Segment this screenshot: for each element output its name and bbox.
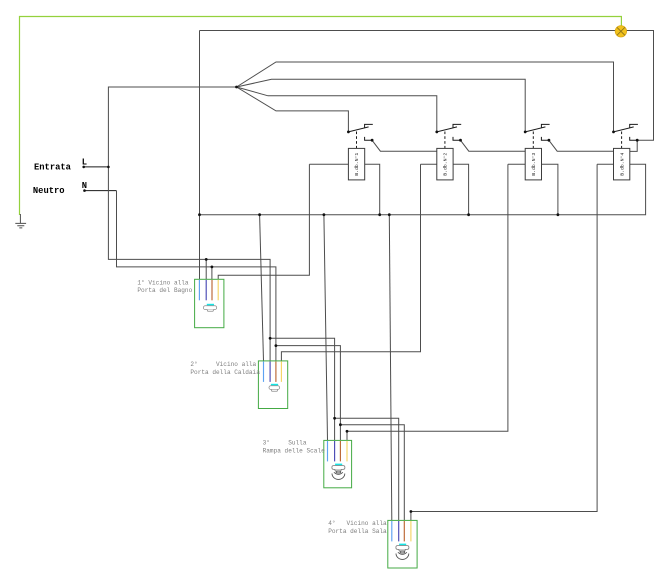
svg-text:Rampa delle Scale: Rampa delle Scale xyxy=(263,447,326,454)
svg-text:Entrata: Entrata xyxy=(34,163,72,173)
svg-text:4° Vicino alla: 4° Vicino alla xyxy=(328,520,387,527)
svg-text:Neutro: Neutro xyxy=(33,186,65,196)
svg-text:B.db.N°3: B.db.N°3 xyxy=(531,153,537,176)
svg-text:N: N xyxy=(82,181,87,191)
svg-text:Porta della Sala: Porta della Sala xyxy=(328,528,387,535)
svg-text:1° Vicino alla: 1° Vicino alla xyxy=(137,279,189,286)
svg-text:L: L xyxy=(82,157,87,167)
svg-text:B.db.N°2: B.db.N°2 xyxy=(443,153,449,176)
svg-text:B.db.N°1: B.db.N°1 xyxy=(354,153,360,176)
svg-text:B.db.N°4: B.db.N°4 xyxy=(619,153,625,176)
svg-text:2° Vicino alla: 2° Vicino alla xyxy=(190,361,256,368)
svg-text:Porta del Bagno: Porta del Bagno xyxy=(137,287,192,294)
svg-text:3° Sulla: 3° Sulla xyxy=(263,439,307,446)
svg-text:Porta della Caldaia: Porta della Caldaia xyxy=(190,369,260,376)
